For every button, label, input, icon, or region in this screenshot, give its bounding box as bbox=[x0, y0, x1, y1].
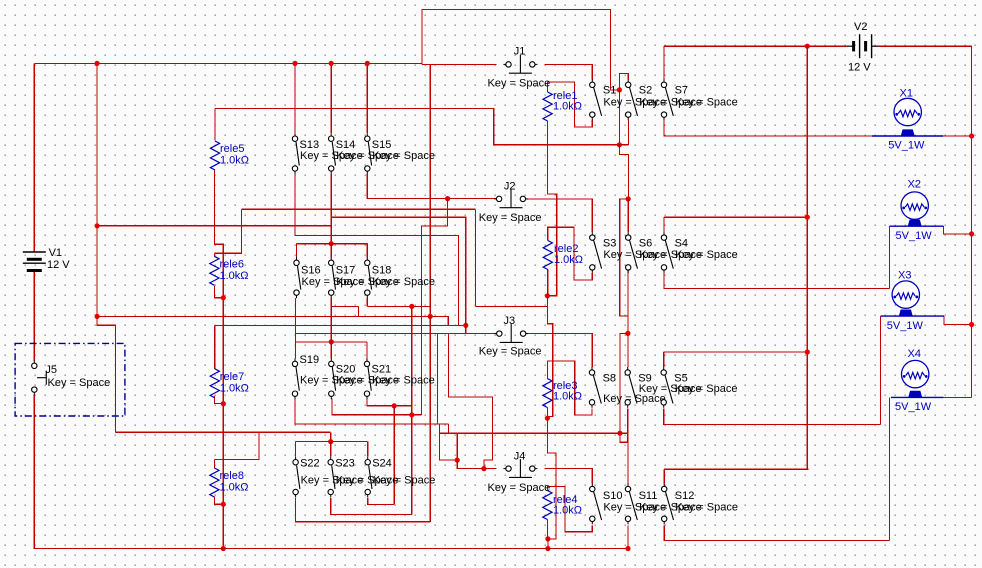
svg-text:S13: S13 bbox=[300, 139, 320, 151]
junction S4 line bbox=[805, 215, 810, 220]
switch S7 bbox=[661, 79, 673, 120]
junction bbox=[365, 61, 370, 66]
key label S5 bbox=[675, 383, 738, 395]
wire S15 bottom to J2 left bbox=[367, 174, 496, 199]
junction above S6 bbox=[626, 196, 631, 201]
wire rele8 top lead bbox=[213, 460, 215, 469]
key label S7 bbox=[675, 97, 738, 109]
wire S15 top feed bbox=[366, 63, 368, 133]
push-button J1 bbox=[503, 55, 537, 73]
wire S22-24 top bus bbox=[296, 441, 368, 443]
svg-text:Key = Space: Key = Space bbox=[488, 77, 551, 89]
junction x=97 y=226 bbox=[95, 223, 100, 228]
wire rele4 bottom lead bbox=[546, 520, 548, 539]
wire S16-18 top bus bbox=[297, 243, 368, 245]
wire rele6 top lead bbox=[213, 253, 215, 256]
label J4 bbox=[514, 450, 526, 462]
svg-text:S8: S8 bbox=[603, 372, 616, 384]
svg-text:J3: J3 bbox=[504, 315, 516, 327]
label S20 bbox=[336, 364, 356, 376]
switch S19 bbox=[292, 358, 299, 399]
label S4 bbox=[675, 237, 688, 249]
svg-text:S7: S7 bbox=[675, 85, 688, 97]
wire x=457 down to J4 dot bbox=[456, 433, 458, 460]
wire main vertical x=430 lower part bbox=[429, 316, 431, 521]
value rele7 bbox=[220, 382, 249, 394]
label S5 bbox=[674, 372, 687, 384]
svg-text:1.0kΩ: 1.0kΩ bbox=[220, 382, 249, 394]
wire S7 top feed bbox=[663, 46, 665, 79]
junction x=412 top bbox=[409, 304, 414, 309]
svg-text:Key = Space: Key = Space bbox=[372, 276, 435, 288]
switch S24 bbox=[365, 457, 372, 498]
svg-text:S19: S19 bbox=[300, 354, 320, 366]
key label S11 bbox=[639, 502, 702, 514]
wire x=412 vertical S23 riser bbox=[411, 306, 413, 514]
key label J2 bbox=[479, 212, 542, 224]
wire y=306.6 to return line bbox=[475, 306, 547, 308]
key label J5 bbox=[48, 377, 111, 389]
wire rele2 bottom lead bbox=[547, 270, 549, 296]
wire S17 bottom to S20 bus bbox=[330, 298, 332, 342]
junction J2 feed bbox=[445, 196, 450, 201]
svg-text:1.0kΩ: 1.0kΩ bbox=[220, 154, 249, 166]
wire rele5-top bus to junction and S2 lead bbox=[215, 109, 629, 145]
label J5 bbox=[45, 364, 57, 376]
svg-text:Key = Space: Key = Space bbox=[675, 502, 738, 514]
label J1 bbox=[514, 45, 526, 57]
junction X3 right bbox=[969, 322, 974, 327]
svg-text:S18: S18 bbox=[372, 264, 392, 276]
label J2 bbox=[504, 181, 516, 193]
switch S10 bbox=[590, 484, 602, 525]
svg-text:5V_1W: 5V_1W bbox=[896, 230, 933, 242]
junction 4-way x=619 y=145 bbox=[617, 142, 622, 147]
resistor rele5 bbox=[210, 141, 219, 170]
key label S6 bbox=[639, 249, 702, 261]
wire S17 top lead bbox=[330, 244, 332, 258]
svg-text:Key = Space: Key = Space bbox=[479, 346, 542, 358]
wire S17 jog right bbox=[331, 305, 358, 307]
wire S21 bottom line bbox=[367, 399, 412, 406]
wire rele7 bottom jog bbox=[215, 396, 224, 404]
key label S3 bbox=[603, 249, 666, 261]
junction rele8 return bbox=[221, 502, 226, 507]
svg-text:Key = Space: Key = Space bbox=[675, 383, 738, 395]
wire x=808 vertical part2 bbox=[806, 217, 808, 352]
junction rele4 return bbox=[545, 536, 550, 541]
wire S20 top lead bbox=[330, 342, 332, 359]
label S1 bbox=[603, 85, 616, 97]
value V2 bbox=[848, 62, 871, 74]
switch S18 bbox=[365, 257, 372, 298]
label S24 bbox=[372, 458, 392, 470]
wire S13 top feed bbox=[294, 63, 296, 133]
key label S22 bbox=[301, 475, 364, 487]
wire rele2 box to S3 bottom bbox=[548, 227, 593, 280]
junction rele6 return bbox=[221, 295, 226, 300]
svg-text:S3: S3 bbox=[603, 237, 616, 249]
wire S24 riser bbox=[393, 406, 395, 505]
key label S12 bbox=[675, 502, 738, 514]
wire S9 bottom lead down bbox=[627, 409, 629, 443]
wire down to S22-24 top bus bbox=[330, 432, 332, 441]
label S7 bbox=[675, 85, 688, 97]
resistor rele4 bbox=[543, 491, 552, 520]
svg-text:J2: J2 bbox=[504, 181, 516, 193]
junction S23 top bbox=[328, 439, 333, 444]
wire rele8 bottom jog bbox=[214, 497, 223, 505]
junction X1 right bbox=[969, 133, 974, 138]
wire S23 bottom loop bbox=[331, 498, 412, 514]
switch S11 bbox=[625, 484, 637, 525]
key label S8 bbox=[603, 393, 666, 405]
battery V1 bbox=[23, 252, 46, 271]
value X4 bbox=[895, 401, 932, 413]
value rele3 bbox=[553, 390, 582, 402]
junction S20 top bbox=[329, 339, 334, 344]
key label S1 bbox=[603, 97, 666, 109]
junction V2 left bbox=[805, 44, 810, 49]
junction rele2 return bbox=[545, 293, 550, 298]
svg-text:Key = Space: Key = Space bbox=[479, 212, 542, 224]
wire S17 jog down bbox=[357, 306, 359, 316]
svg-text:1.0kΩ: 1.0kΩ bbox=[553, 100, 582, 112]
wire x=808 vertical part1 bbox=[806, 46, 808, 217]
key label S2 bbox=[639, 97, 702, 109]
battery V2 bbox=[847, 34, 879, 58]
switch S14 bbox=[329, 133, 336, 174]
switch S5 bbox=[661, 367, 673, 408]
junction bbox=[329, 61, 334, 66]
wire J3 left line bbox=[295, 333, 496, 335]
svg-text:X2: X2 bbox=[908, 179, 921, 191]
push-button J3 bbox=[494, 324, 528, 342]
wire bus down to row3 junction bbox=[620, 199, 628, 334]
svg-text:1.0kΩ: 1.0kΩ bbox=[220, 481, 249, 493]
label X3 bbox=[898, 270, 911, 282]
wire S19 bottom line y=424 bbox=[295, 399, 449, 424]
wire jog down to row2 junction bbox=[619, 145, 628, 199]
wire J1 right to S1 top bbox=[544, 64, 592, 79]
lamp X3 bbox=[881, 281, 944, 316]
switch S17 bbox=[329, 257, 336, 298]
value rele8 bbox=[220, 481, 249, 493]
lamp X2 bbox=[890, 192, 944, 226]
label S10 bbox=[603, 490, 623, 502]
key label S19 bbox=[300, 375, 363, 387]
wire J2 right to S3 top bbox=[525, 199, 592, 232]
label S12 bbox=[675, 490, 695, 502]
junction bbox=[292, 61, 297, 66]
switch S8 bbox=[589, 367, 601, 408]
wire V2 left lead bus bbox=[664, 45, 847, 47]
resistor rele2 bbox=[543, 241, 552, 270]
resistor rele6 bbox=[210, 256, 219, 285]
value rele2 bbox=[554, 254, 583, 266]
svg-text:S14: S14 bbox=[336, 139, 356, 151]
junction x=97 y=316 bbox=[95, 314, 100, 319]
svg-text:5V_1W: 5V_1W bbox=[888, 139, 925, 151]
wire S24 bottom loop bbox=[368, 498, 395, 504]
key label S10 bbox=[603, 502, 666, 514]
wire S22 top lead bbox=[295, 442, 297, 457]
svg-text:1.0kΩ: 1.0kΩ bbox=[553, 504, 582, 516]
wire return down to rele4 junction bbox=[547, 418, 556, 539]
svg-text:rele6: rele6 bbox=[220, 259, 244, 271]
wire main vertical x=430 upper part bbox=[429, 64, 431, 316]
wire S18 top lead bbox=[366, 244, 368, 258]
wire top loop to S1/S2 junction bbox=[422, 10, 620, 90]
wire rele4 box to S10 bottom bbox=[547, 487, 592, 532]
svg-text:1.0kΩ: 1.0kΩ bbox=[553, 390, 582, 402]
wire X2 left riser bbox=[889, 226, 891, 288]
svg-text:S12: S12 bbox=[675, 490, 695, 502]
svg-text:Key = Space: Key = Space bbox=[373, 475, 436, 487]
label rele5 bbox=[220, 143, 244, 155]
wire S16 bottom to S19 top bbox=[294, 298, 296, 358]
switch S22 bbox=[293, 457, 300, 498]
wire return to bottom bus bbox=[547, 539, 549, 549]
push-button J2 bbox=[494, 189, 528, 207]
svg-text:X1: X1 bbox=[900, 88, 913, 100]
wire S12 top lead bbox=[663, 469, 665, 483]
wire X4 left riser bbox=[889, 397, 891, 540]
svg-text:12 V: 12 V bbox=[848, 62, 871, 74]
svg-text:S10: S10 bbox=[603, 490, 623, 502]
label S15 bbox=[372, 139, 392, 151]
wire S12 top line bbox=[664, 468, 809, 470]
wire rele3 bottom lead bbox=[546, 408, 548, 419]
label rele4 bbox=[553, 494, 577, 506]
wire x=808 vertical part3 bbox=[806, 352, 808, 469]
wire S6 bottom lead down bbox=[627, 270, 629, 316]
label S2 bbox=[639, 85, 652, 97]
key label S16 bbox=[302, 276, 365, 288]
wire S4 top line bbox=[664, 216, 807, 218]
label rele7 bbox=[220, 371, 244, 383]
switch S12 bbox=[662, 484, 674, 525]
switch S1 bbox=[590, 79, 602, 120]
wire x=97 vertical upper bbox=[96, 63, 98, 225]
wire S23 top lead bbox=[330, 442, 332, 457]
svg-text:S1: S1 bbox=[603, 85, 616, 97]
value X2 bbox=[896, 230, 933, 242]
wire x=440 down to J4 feed dot bbox=[440, 424, 458, 460]
junction bbox=[95, 61, 100, 66]
wire S20 bottom line bbox=[332, 399, 421, 415]
push-button J5 bbox=[32, 361, 47, 395]
wire S22 bottom loop bbox=[296, 498, 431, 522]
switch S13 bbox=[292, 133, 299, 174]
svg-text:J4: J4 bbox=[514, 450, 526, 462]
wire to S9 top bbox=[627, 333, 629, 367]
wire S13 bottom line to y=325 bbox=[295, 174, 458, 325]
svg-text:S6: S6 bbox=[639, 237, 652, 249]
wire S5 top lead bbox=[663, 352, 665, 367]
wire X3 right jog bbox=[944, 316, 972, 324]
wire rele8 top line to y=432 bus bbox=[214, 432, 259, 459]
svg-text:V2: V2 bbox=[854, 21, 867, 33]
svg-text:5V_1W: 5V_1W bbox=[895, 401, 932, 413]
label S14 bbox=[336, 139, 356, 151]
svg-text:S17: S17 bbox=[336, 264, 356, 276]
junction S17 top bbox=[329, 241, 334, 246]
wire S14 top feed bbox=[330, 63, 332, 133]
value X1 bbox=[888, 139, 925, 151]
wire x=475 vertical bbox=[474, 209, 476, 306]
label J3 bbox=[504, 315, 516, 327]
svg-text:S24: S24 bbox=[372, 458, 392, 470]
label rele2 bbox=[554, 243, 578, 255]
key label S24 bbox=[373, 475, 436, 487]
svg-text:Key = Space: Key = Space bbox=[675, 97, 738, 109]
svg-text:S11: S11 bbox=[639, 490, 658, 502]
wire S18 bottom lead bbox=[366, 298, 368, 306]
wire rele5 top lead bbox=[214, 109, 216, 141]
svg-text:rele7: rele7 bbox=[220, 371, 244, 383]
key label J4 bbox=[488, 482, 551, 494]
label X4 bbox=[908, 348, 921, 360]
wire S14 line down to J3 line bbox=[331, 217, 466, 333]
push-button J4 bbox=[503, 459, 537, 477]
svg-text:1.0kΩ: 1.0kΩ bbox=[554, 254, 583, 266]
switch S16 bbox=[294, 257, 301, 298]
svg-text:S22: S22 bbox=[300, 458, 320, 470]
wire J1 left lead bbox=[422, 63, 497, 65]
key label S13 bbox=[300, 150, 363, 162]
label S18 bbox=[372, 264, 392, 276]
svg-text:Key = Space: Key = Space bbox=[372, 375, 435, 387]
label S6 bbox=[639, 237, 652, 249]
lamp X4 bbox=[891, 360, 943, 397]
wire S5 top line bbox=[664, 351, 808, 353]
junction bus x=620 y=433 bbox=[617, 431, 622, 436]
label rele1 bbox=[553, 90, 577, 102]
selection box around J5 bbox=[15, 343, 125, 416]
junction S5 line bbox=[805, 349, 810, 354]
wire V1 bottom to J5 bbox=[33, 272, 35, 361]
key label S9 bbox=[639, 383, 702, 395]
wire rele5 bottom to return vertical bbox=[215, 170, 224, 549]
junction X2 right bbox=[969, 231, 974, 236]
key label S23 bbox=[336, 475, 399, 487]
wire X2 right jog bbox=[944, 226, 972, 234]
label rele8 bbox=[220, 470, 244, 482]
wire S11 bottom lead bbox=[627, 525, 629, 548]
svg-text:Key = Space: Key = Space bbox=[48, 377, 111, 389]
key label S15 bbox=[372, 150, 435, 162]
label V2 bbox=[854, 21, 867, 33]
wire X1 right bbox=[941, 135, 972, 137]
wire rele1 bottom return jog bbox=[547, 121, 556, 296]
label S21 bbox=[372, 364, 392, 376]
value rele1 bbox=[553, 100, 582, 112]
label S19 bbox=[300, 354, 320, 366]
resistor rele3 bbox=[543, 379, 552, 408]
wire bus down to S11 top bbox=[620, 333, 628, 483]
wire S4 top lead bbox=[663, 217, 665, 232]
label S9 bbox=[638, 372, 651, 384]
label X2 bbox=[908, 179, 921, 191]
label S8 bbox=[603, 372, 616, 384]
wire junction down to row junction bbox=[618, 90, 620, 145]
wire S18 line y=306 bbox=[367, 305, 430, 307]
switch S3 bbox=[590, 232, 602, 273]
wire rele1 box to S1 bottom bbox=[548, 82, 593, 127]
junction y=325 end bbox=[463, 323, 468, 328]
label S17 bbox=[336, 264, 356, 276]
wire jog to S2 top bbox=[619, 73, 628, 90]
wire S7 bottom to X1 row bbox=[664, 120, 941, 136]
wire jog to x=115 vertical bbox=[97, 316, 115, 432]
key label S17 bbox=[336, 276, 399, 288]
key label J1 bbox=[488, 77, 551, 89]
svg-text:S2: S2 bbox=[639, 85, 652, 97]
switch S15 bbox=[365, 133, 372, 174]
switch S2 bbox=[626, 79, 638, 120]
junction S24 riser bbox=[392, 403, 397, 408]
wire vertical x=437 J3 line to S19 line bbox=[436, 334, 438, 424]
switch S6 bbox=[626, 232, 638, 273]
resistor rele8 bbox=[210, 468, 219, 497]
junction rele7 return bbox=[221, 401, 226, 406]
svg-text:rele8: rele8 bbox=[220, 470, 244, 482]
label S3 bbox=[603, 237, 616, 249]
wire to J4 left bbox=[457, 460, 496, 469]
wire bottom bus bbox=[34, 395, 628, 549]
svg-text:12 V: 12 V bbox=[47, 259, 70, 271]
junction J4 feed 2 bbox=[481, 466, 486, 471]
wire S4 bottom to X2 left riser bbox=[664, 273, 890, 289]
svg-text:X3: X3 bbox=[898, 270, 911, 282]
value X3 bbox=[887, 320, 924, 332]
switch S21 bbox=[364, 358, 371, 399]
junction return bottom bbox=[545, 546, 550, 551]
wire X4 right bbox=[943, 396, 971, 398]
label rele3 bbox=[553, 380, 577, 392]
svg-text:J5: J5 bbox=[45, 364, 57, 376]
wire S5 bottom to X3 riser bbox=[664, 409, 881, 425]
wire rele6 top to corner bbox=[214, 209, 241, 253]
wire top bus y=63 from V1+ to x=422 bbox=[34, 62, 422, 64]
svg-text:J1: J1 bbox=[514, 45, 526, 57]
key label J3 bbox=[479, 346, 542, 358]
junction S11 bottom bbox=[625, 546, 630, 551]
svg-text:Key = Space: Key = Space bbox=[372, 150, 435, 162]
wire S16 top lead bbox=[296, 244, 298, 258]
svg-text:5V_1W: 5V_1W bbox=[887, 320, 924, 332]
label S23 bbox=[335, 458, 355, 470]
wire rele6 bottom jog bbox=[214, 286, 223, 298]
resistor rele1 bbox=[543, 92, 552, 121]
label rele6 bbox=[220, 259, 244, 271]
wire S24 top lead bbox=[367, 442, 369, 457]
wire return down to rele3 junction bbox=[547, 296, 552, 418]
switch S23 bbox=[328, 457, 335, 498]
wire S2 bottom lead bbox=[628, 120, 630, 145]
wire V1 top lead bbox=[33, 63, 35, 251]
junction J4 feed 1 bbox=[455, 458, 460, 463]
label S22 bbox=[300, 458, 320, 470]
junction rele3 return bbox=[545, 416, 550, 421]
label V1 bbox=[49, 247, 62, 259]
switch S4 bbox=[661, 232, 673, 273]
svg-text:1.0kΩ: 1.0kΩ bbox=[220, 270, 249, 282]
label X1 bbox=[900, 88, 913, 100]
svg-text:X4: X4 bbox=[908, 348, 921, 360]
wire J4 feed riser to J3 line bbox=[448, 334, 492, 469]
